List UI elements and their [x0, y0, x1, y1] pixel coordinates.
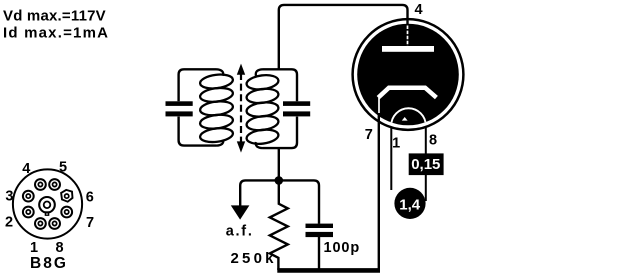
- svg-text:1: 1: [30, 240, 38, 256]
- socket center spigot: [39, 197, 55, 215]
- inductor L1 (primary coil): [199, 69, 233, 145]
- svg-text:3: 3: [5, 189, 13, 205]
- socket pin 4: [35, 179, 46, 190]
- inductor L2 (secondary coil): [246, 69, 279, 148]
- wire: junction to capacitor C3: [279, 180, 319, 223]
- wire: secondary bottom to junction: [278, 147, 280, 180]
- heater current marker 0,15: [409, 153, 444, 175]
- primary tank loop wiring: [179, 69, 217, 145]
- svg-text:7: 7: [86, 215, 94, 231]
- tube cathode lead (inside, to pin 7): [378, 98, 380, 115]
- svg-text:7: 7: [365, 127, 373, 143]
- tube socket B8G outline: [13, 169, 82, 238]
- heater voltage marker 1,4: [394, 188, 425, 219]
- svg-text:B8G: B8G: [30, 255, 68, 272]
- tube heater circle: [391, 108, 426, 143]
- socket pin 3: [23, 191, 34, 202]
- socket pin 7: [61, 207, 72, 218]
- svg-text:250k: 250k: [231, 250, 277, 267]
- wire: heater pin 8 lead: [425, 128, 427, 202]
- socket pin 2: [23, 207, 34, 218]
- svg-text:0,15: 0,15: [411, 156, 440, 173]
- wire: cathode pin 7 lead down to rail: [378, 113, 380, 270]
- svg-text:8: 8: [55, 240, 63, 256]
- svg-text:5: 5: [59, 160, 67, 176]
- wire: junction to a.f. output arrow: [240, 180, 279, 206]
- svg-text:Vd max.=117V: Vd max.=117V: [3, 8, 106, 25]
- capacitor C3 100p: [306, 224, 334, 270]
- socket pin 1: [35, 218, 46, 229]
- tuning arrow between coils: [237, 64, 245, 153]
- svg-text:Id max.=1mA: Id max.=1mA: [3, 25, 109, 42]
- socket pin 6 keyed: [61, 190, 72, 202]
- svg-text:2: 2: [5, 215, 13, 231]
- tube filament mark: [402, 117, 408, 121]
- tube cathode: [378, 88, 436, 98]
- node junction (detector output): [275, 176, 284, 185]
- svg-text:100p: 100p: [324, 240, 361, 256]
- socket pin 8: [49, 218, 60, 229]
- tube anode lead (inside): [407, 26, 409, 47]
- wire: bottom return rail: [277, 268, 380, 273]
- capacitor C2 (secondary tuning): [283, 101, 310, 116]
- svg-text:6: 6: [86, 190, 94, 206]
- tube V1 envelope: [353, 19, 464, 130]
- a.f. output arrow: [231, 205, 250, 219]
- wire: heater pin 1 lead: [390, 128, 392, 191]
- socket pin 5: [49, 179, 60, 190]
- svg-text:4: 4: [414, 2, 422, 18]
- resistor R1 250k: [270, 182, 288, 270]
- svg-text:1,4: 1,4: [399, 196, 421, 213]
- secondary tank loop wiring: [263, 69, 298, 148]
- wire: secondary top to anode (pin 4): [279, 5, 408, 69]
- tube anode plate: [382, 46, 434, 52]
- svg-text:4: 4: [22, 161, 30, 177]
- svg-text:8: 8: [429, 132, 437, 148]
- svg-text:a.f.: a.f.: [226, 224, 254, 240]
- capacitor C1 (primary tuning): [166, 101, 193, 116]
- svg-text:1: 1: [392, 135, 400, 151]
